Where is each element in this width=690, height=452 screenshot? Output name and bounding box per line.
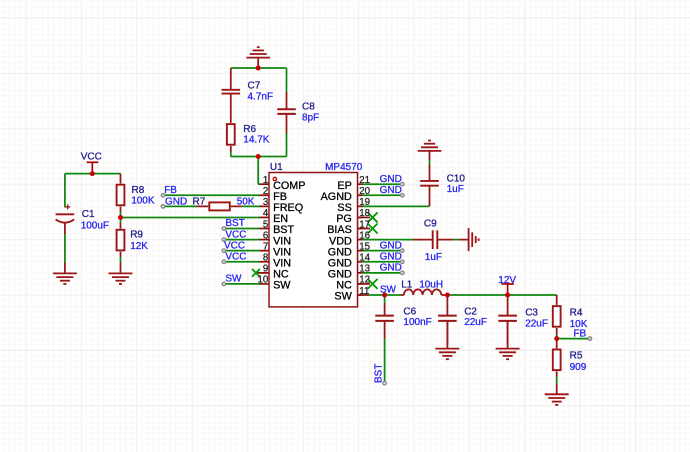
svg-text:GND: GND	[380, 185, 402, 196]
svg-text:14.7K: 14.7K	[243, 135, 269, 146]
svg-text:R6: R6	[243, 124, 256, 135]
svg-text:VCC: VCC	[225, 229, 246, 240]
svg-text:C8: C8	[302, 101, 315, 112]
svg-text:7: 7	[263, 241, 268, 252]
svg-text:12K: 12K	[130, 241, 148, 252]
svg-text:909: 909	[570, 362, 587, 373]
svg-text:2: 2	[263, 186, 268, 197]
svg-text:R5: R5	[570, 350, 583, 361]
svg-text:9: 9	[263, 264, 268, 275]
svg-text:1uF: 1uF	[425, 252, 442, 263]
svg-text:21: 21	[359, 175, 370, 186]
svg-text:R4: R4	[570, 307, 583, 318]
svg-text:8pF: 8pF	[302, 112, 319, 123]
svg-text:VCC: VCC	[225, 251, 246, 262]
svg-text:U1: U1	[270, 162, 283, 173]
svg-text:6: 6	[263, 230, 268, 241]
svg-text:GND: GND	[380, 252, 402, 263]
svg-text:C2: C2	[464, 306, 477, 317]
svg-text:10: 10	[258, 275, 269, 286]
svg-text:16: 16	[359, 230, 370, 241]
svg-text:12V: 12V	[498, 275, 516, 286]
svg-text:17: 17	[359, 219, 370, 230]
svg-text:1uF: 1uF	[447, 184, 464, 195]
svg-text:BST: BST	[225, 218, 244, 229]
svg-text:C9: C9	[424, 218, 437, 229]
svg-text:GND: GND	[165, 197, 187, 208]
svg-text:100uF: 100uF	[81, 220, 109, 231]
svg-text:R7: R7	[193, 197, 206, 208]
svg-text:FB: FB	[573, 329, 586, 340]
svg-text:SW: SW	[273, 280, 291, 292]
svg-text:18: 18	[359, 208, 370, 219]
svg-text:R9: R9	[130, 229, 143, 240]
svg-text:3: 3	[263, 197, 268, 208]
svg-text:100nF: 100nF	[403, 317, 431, 328]
svg-text:GND: GND	[380, 263, 402, 274]
svg-text:SW: SW	[225, 274, 242, 285]
svg-text:C7: C7	[248, 80, 261, 91]
svg-text:L1: L1	[401, 279, 413, 290]
svg-text:4: 4	[263, 208, 269, 219]
svg-text:BST: BST	[373, 364, 384, 383]
svg-text:SW: SW	[380, 285, 397, 296]
svg-text:14: 14	[359, 253, 370, 264]
svg-text:C1: C1	[82, 209, 95, 220]
svg-text:19: 19	[359, 197, 370, 208]
svg-text:15: 15	[359, 241, 370, 252]
svg-text:4.7nF: 4.7nF	[248, 91, 274, 102]
svg-text:MP4570: MP4570	[325, 162, 363, 173]
svg-text:8: 8	[263, 253, 268, 264]
svg-text:11: 11	[359, 286, 369, 297]
svg-text:GND: GND	[380, 174, 402, 185]
svg-text:22uF: 22uF	[525, 318, 548, 329]
svg-text:20: 20	[359, 186, 370, 197]
svg-text:1: 1	[263, 175, 268, 186]
svg-text:FB: FB	[164, 185, 177, 196]
svg-text:SW: SW	[334, 291, 352, 303]
svg-text:VCC: VCC	[224, 240, 245, 251]
svg-text:VCC: VCC	[81, 151, 102, 162]
svg-text:C3: C3	[525, 307, 538, 318]
svg-text:50K: 50K	[237, 197, 255, 208]
svg-text:5: 5	[263, 219, 268, 230]
svg-text:C6: C6	[403, 306, 416, 317]
svg-text:22uF: 22uF	[464, 317, 487, 328]
svg-text:GND: GND	[380, 241, 402, 252]
svg-text:12: 12	[359, 275, 370, 286]
svg-text:10uH: 10uH	[419, 279, 443, 290]
svg-text:100K: 100K	[131, 196, 155, 207]
svg-text:13: 13	[359, 264, 370, 275]
